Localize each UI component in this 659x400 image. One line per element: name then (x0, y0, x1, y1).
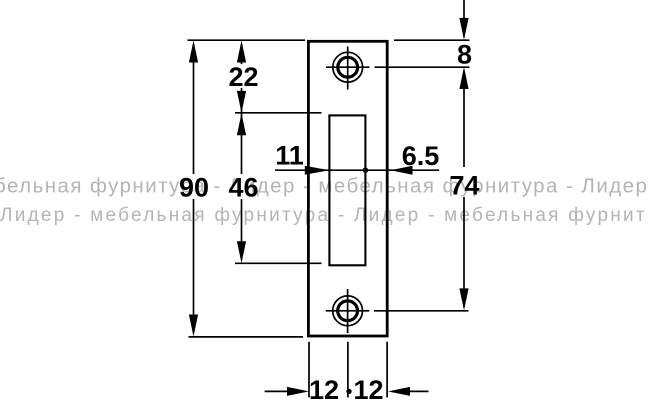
svg-text:74: 74 (449, 171, 479, 201)
svg-text:мебельная фурнитура - Лидер -: мебельная фурнитура - Лидер - мебельная … (0, 175, 648, 198)
svg-text:90: 90 (179, 173, 209, 203)
svg-text:6.5: 6.5 (402, 141, 440, 171)
svg-text:46: 46 (228, 173, 258, 203)
svg-text:11: 11 (275, 141, 304, 171)
svg-text:12: 12 (353, 375, 383, 400)
svg-text:22: 22 (228, 62, 258, 92)
svg-text:12: 12 (309, 375, 339, 400)
svg-text:8: 8 (457, 40, 472, 70)
svg-text:Лидер - мебельная фурнитура -: Лидер - мебельная фурнитура - Лидер - ме… (0, 205, 647, 226)
